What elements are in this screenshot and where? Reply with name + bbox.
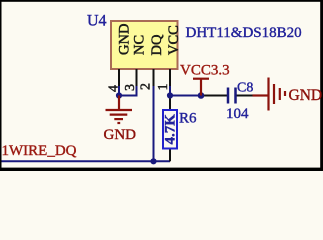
svg-text:DQ: DQ [149, 34, 165, 55]
svg-text:2: 2 [139, 83, 154, 90]
svg-text:GND: GND [289, 87, 323, 104]
svg-text:GND: GND [117, 24, 133, 55]
svg-text:GND: GND [104, 127, 137, 143]
svg-text:DHT11&DS18B20: DHT11&DS18B20 [186, 25, 302, 41]
svg-text:NC: NC [132, 35, 148, 55]
svg-text:1: 1 [156, 84, 171, 91]
svg-text:U4: U4 [87, 13, 107, 30]
svg-text:C8: C8 [237, 80, 253, 95]
svg-text:4.7K: 4.7K [163, 114, 179, 145]
svg-text:1WIRE_DQ: 1WIRE_DQ [2, 143, 77, 159]
svg-text:VCC3.3: VCC3.3 [180, 63, 230, 79]
svg-text:VCC: VCC [166, 25, 182, 55]
svg-text:104: 104 [226, 106, 249, 122]
svg-text:R6: R6 [179, 111, 197, 127]
